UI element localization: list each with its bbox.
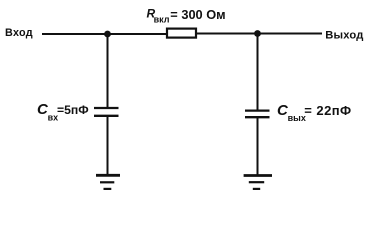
svg-text:Выход: Выход xyxy=(325,29,363,41)
ground (right) xyxy=(244,176,272,189)
resistor Rвкл body xyxy=(167,29,196,38)
wire input to node A xyxy=(42,33,107,35)
label Cвх = 5пФ xyxy=(37,101,89,123)
svg-text:= 300 Ом: = 300 Ом xyxy=(170,7,225,22)
label Rвкл = 300 Ом xyxy=(147,6,226,24)
wire node A down to capacitor C_вх xyxy=(107,34,109,107)
wire capacitor Cвых to ground xyxy=(257,117,259,175)
svg-text:вых: вых xyxy=(288,113,306,123)
wire node B down to capacitor C_вых xyxy=(257,34,259,110)
svg-text:= 22пФ: = 22пФ xyxy=(304,103,351,118)
svg-text:Вход: Вход xyxy=(5,27,33,39)
wire node B to output xyxy=(258,33,323,35)
svg-text:вкл: вкл xyxy=(154,15,170,25)
node B junction dot xyxy=(254,30,261,37)
wire resistor to node B xyxy=(197,33,258,35)
wire node A to resistor R1 xyxy=(108,33,168,35)
label Cвых = 22пФ xyxy=(277,102,352,123)
svg-text:=5пФ: =5пФ xyxy=(57,103,89,117)
capacitor Cвых plates xyxy=(245,111,270,118)
node A junction dot xyxy=(104,31,111,38)
capacitor Cвх plates xyxy=(94,108,119,116)
ground (left) xyxy=(96,175,120,189)
wire capacitor Cвх to ground xyxy=(107,116,109,175)
